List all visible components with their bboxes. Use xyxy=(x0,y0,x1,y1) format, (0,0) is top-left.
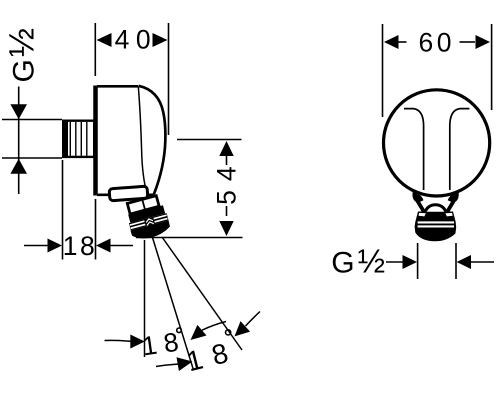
svg-text:G½: G½ xyxy=(2,28,41,83)
svg-text:G½: G½ xyxy=(331,242,385,279)
